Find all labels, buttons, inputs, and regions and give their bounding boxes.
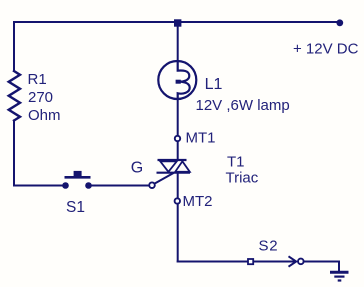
node MT2 ring bbox=[175, 198, 180, 203]
wire S2 blade bbox=[254, 261, 296, 263]
svg-text:2: 2 bbox=[269, 238, 277, 255]
lamp L1 filament bbox=[178, 61, 190, 101]
gate terminal ring bbox=[149, 182, 155, 188]
svg-text:G: G bbox=[131, 160, 143, 177]
node MT1 ring bbox=[175, 136, 180, 141]
lamp filament center nub bbox=[176, 80, 181, 84]
switch S2 right ring terminal bbox=[298, 259, 304, 265]
ground (right) bar 2 bbox=[334, 276, 344, 278]
svg-text:+ 12V DC: + 12V DC bbox=[293, 40, 359, 57]
wire triac to MT2 bbox=[177, 173, 179, 198]
switch S2 arrow blade bbox=[289, 256, 297, 266]
switch S1 button cap bbox=[74, 171, 82, 177]
switch S1 left contact dot bbox=[62, 182, 69, 189]
wire bottom horizontal bbox=[178, 261, 248, 263]
wire left vertical (top) bbox=[13, 22, 15, 71]
wire S2 to ground bbox=[305, 262, 340, 272]
svg-text:S1: S1 bbox=[66, 199, 85, 216]
svg-text:Triac: Triac bbox=[226, 170, 259, 187]
node terminal +12V end dot bbox=[336, 19, 343, 26]
svg-text:T1: T1 bbox=[227, 154, 245, 171]
triac T1 top bar bbox=[158, 159, 187, 161]
lamp L1 circle bbox=[158, 61, 196, 99]
wire MT1 to triac bbox=[177, 142, 179, 160]
switch S1 bridge bar bbox=[65, 176, 91, 179]
wire MT2 down bbox=[177, 205, 179, 262]
ground (right) bar 1 bbox=[330, 271, 349, 274]
wire top rail bbox=[14, 21, 340, 23]
svg-text:L1: L1 bbox=[205, 76, 223, 93]
wire lamp drop from junction bbox=[177, 24, 179, 61]
svg-text:R1: R1 bbox=[28, 71, 47, 88]
triac T1 right triangle bbox=[175, 161, 190, 172]
triac T1 left triangle bbox=[160, 161, 177, 172]
svg-text:12V ,6W lamp: 12V ,6W lamp bbox=[196, 97, 290, 114]
switch S1 right contact dot bbox=[85, 182, 92, 189]
ground (right) bar 3 bbox=[338, 279, 342, 281]
gate wire diagonal bbox=[155, 173, 174, 184]
junction node at lamp branch bbox=[174, 19, 181, 26]
switch S2 left square terminal bbox=[248, 259, 253, 264]
triac T1 bottom bar bbox=[157, 172, 191, 174]
resistor R1 bbox=[9, 71, 20, 121]
svg-text:Ohm: Ohm bbox=[28, 107, 61, 124]
wire left vertical (bottom) bbox=[13, 121, 15, 186]
svg-text:270: 270 bbox=[28, 89, 53, 106]
svg-text:S: S bbox=[259, 238, 269, 255]
svg-text:MT1: MT1 bbox=[186, 130, 216, 147]
wire S1 to gate bbox=[91, 185, 149, 187]
wire to S1 bbox=[14, 185, 63, 187]
wire lamp to MT1 bbox=[177, 100, 179, 135]
svg-text:MT2: MT2 bbox=[183, 193, 213, 210]
